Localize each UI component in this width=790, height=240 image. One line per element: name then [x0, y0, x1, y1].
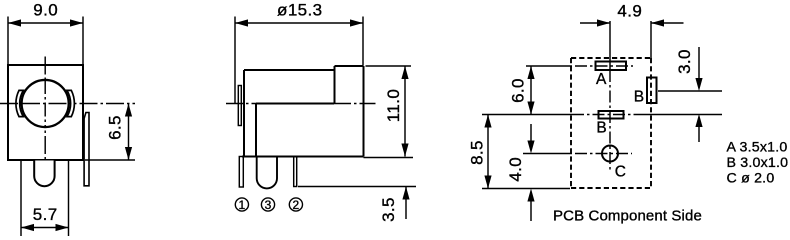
- svg-text:C ø 2.0: C ø 2.0: [727, 171, 775, 187]
- svg-text:6.0: 6.0: [508, 78, 527, 103]
- svg-text:2: 2: [293, 198, 300, 212]
- svg-text:11.0: 11.0: [384, 89, 403, 122]
- svg-text:A 3.5x1.0: A 3.5x1.0: [727, 140, 788, 156]
- svg-text:5.7: 5.7: [33, 205, 58, 224]
- svg-text:A: A: [596, 71, 607, 88]
- svg-text:B 3.0x1.0: B 3.0x1.0: [727, 155, 789, 171]
- svg-text:1: 1: [239, 198, 246, 212]
- svg-text:PCB Component Side: PCB Component Side: [553, 207, 702, 224]
- svg-text:ø15.3: ø15.3: [277, 1, 322, 20]
- svg-text:B: B: [634, 89, 644, 106]
- svg-text:C: C: [615, 163, 626, 180]
- svg-text:9.0: 9.0: [33, 1, 58, 20]
- svg-text:B: B: [596, 119, 606, 136]
- svg-text:4.0: 4.0: [506, 157, 525, 182]
- svg-text:3.0: 3.0: [675, 49, 694, 74]
- svg-text:3: 3: [265, 198, 272, 212]
- svg-text:6.5: 6.5: [105, 115, 124, 140]
- svg-text:4.9: 4.9: [617, 2, 642, 21]
- svg-text:8.5: 8.5: [468, 140, 487, 165]
- svg-text:3.5: 3.5: [379, 197, 398, 222]
